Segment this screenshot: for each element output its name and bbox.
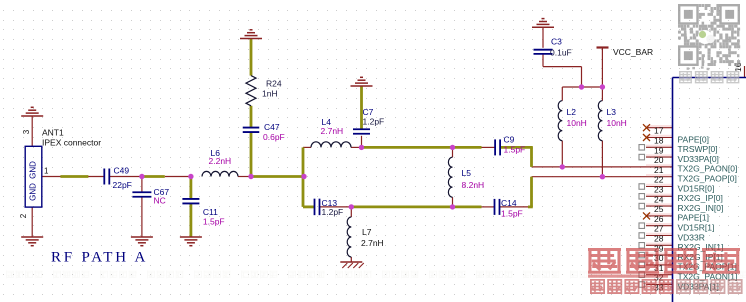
svg-text:TX2G_PAON[0]: TX2G_PAON[0]: [678, 164, 738, 174]
svg-text:28: 28: [654, 234, 664, 244]
svg-text:1.5pF: 1.5pF: [203, 217, 225, 227]
svg-text:22: 22: [654, 175, 664, 185]
svg-text:L5: L5: [462, 168, 472, 178]
svg-text:VD15R[1]: VD15R[1]: [678, 223, 715, 233]
svg-text:PAPE[0]: PAPE[0]: [678, 134, 710, 144]
svg-text:19: 19: [654, 145, 664, 155]
svg-text:C9: C9: [504, 135, 515, 145]
svg-text:C49: C49: [114, 166, 130, 176]
svg-text:21: 21: [654, 165, 664, 175]
svg-text:TX2G_PAOP[0]: TX2G_PAOP[0]: [678, 174, 737, 184]
svg-text:L3: L3: [607, 107, 617, 117]
svg-text:2.7nH: 2.7nH: [321, 126, 344, 136]
svg-text:17: 17: [654, 126, 664, 136]
svg-text:24: 24: [654, 194, 664, 204]
svg-text:0.1uF: 0.1uF: [550, 48, 572, 58]
svg-text:IPEX connector: IPEX connector: [42, 138, 101, 148]
svg-text:1.2pF: 1.2pF: [363, 117, 385, 127]
svg-text:2.7nH: 2.7nH: [361, 238, 384, 248]
svg-text:ANT1: ANT1: [42, 128, 64, 138]
svg-text:VD15R[0]: VD15R[0]: [678, 183, 715, 193]
svg-text:22pF: 22pF: [113, 180, 132, 190]
svg-text:VCC_BAR: VCC_BAR: [613, 47, 653, 57]
svg-text:R24: R24: [266, 79, 282, 89]
svg-text:C3: C3: [551, 37, 562, 47]
svg-text:1: 1: [44, 167, 49, 176]
svg-text:NC: NC: [154, 196, 166, 206]
svg-text:RF PATH A: RF PATH A: [51, 250, 148, 266]
svg-text:10nH: 10nH: [567, 118, 587, 128]
svg-text:1.5pF: 1.5pF: [501, 209, 523, 219]
svg-text:RX2G_IP[0]: RX2G_IP[0]: [678, 193, 723, 203]
svg-text:18: 18: [654, 136, 664, 146]
svg-text:C7: C7: [363, 107, 374, 117]
svg-text:C47: C47: [264, 122, 280, 132]
svg-text:C11: C11: [203, 207, 218, 217]
svg-text:0.6pF: 0.6pF: [263, 132, 285, 142]
svg-text:10nH: 10nH: [607, 118, 627, 128]
svg-text:27: 27: [654, 224, 664, 234]
svg-text:8.2nH: 8.2nH: [462, 180, 485, 190]
svg-text:VD33R: VD33R: [678, 232, 705, 242]
svg-text:1.5pF: 1.5pF: [504, 145, 526, 155]
svg-text:L7: L7: [362, 227, 372, 237]
svg-text:1.2pF: 1.2pF: [322, 207, 344, 217]
svg-text:3: 3: [22, 129, 31, 134]
svg-text:PAPE[1]: PAPE[1]: [678, 213, 710, 223]
svg-text:VD33PA[0]: VD33PA[0]: [678, 154, 719, 164]
svg-text:TRSWP[0]: TRSWP[0]: [678, 144, 718, 154]
svg-text:2.2nH: 2.2nH: [209, 156, 232, 166]
svg-text:23: 23: [654, 185, 664, 195]
svg-text:C14: C14: [501, 198, 517, 208]
svg-text:26: 26: [654, 214, 664, 224]
svg-text:GND: GND: [29, 183, 38, 201]
svg-text:GND: GND: [29, 161, 38, 179]
svg-text:RX2G_IN[0]: RX2G_IN[0]: [678, 203, 724, 213]
svg-text:2: 2: [19, 213, 28, 218]
svg-text:20: 20: [654, 155, 664, 165]
svg-text:L2: L2: [567, 107, 577, 117]
svg-text:1nH: 1nH: [262, 89, 278, 99]
svg-text:25: 25: [654, 204, 664, 214]
